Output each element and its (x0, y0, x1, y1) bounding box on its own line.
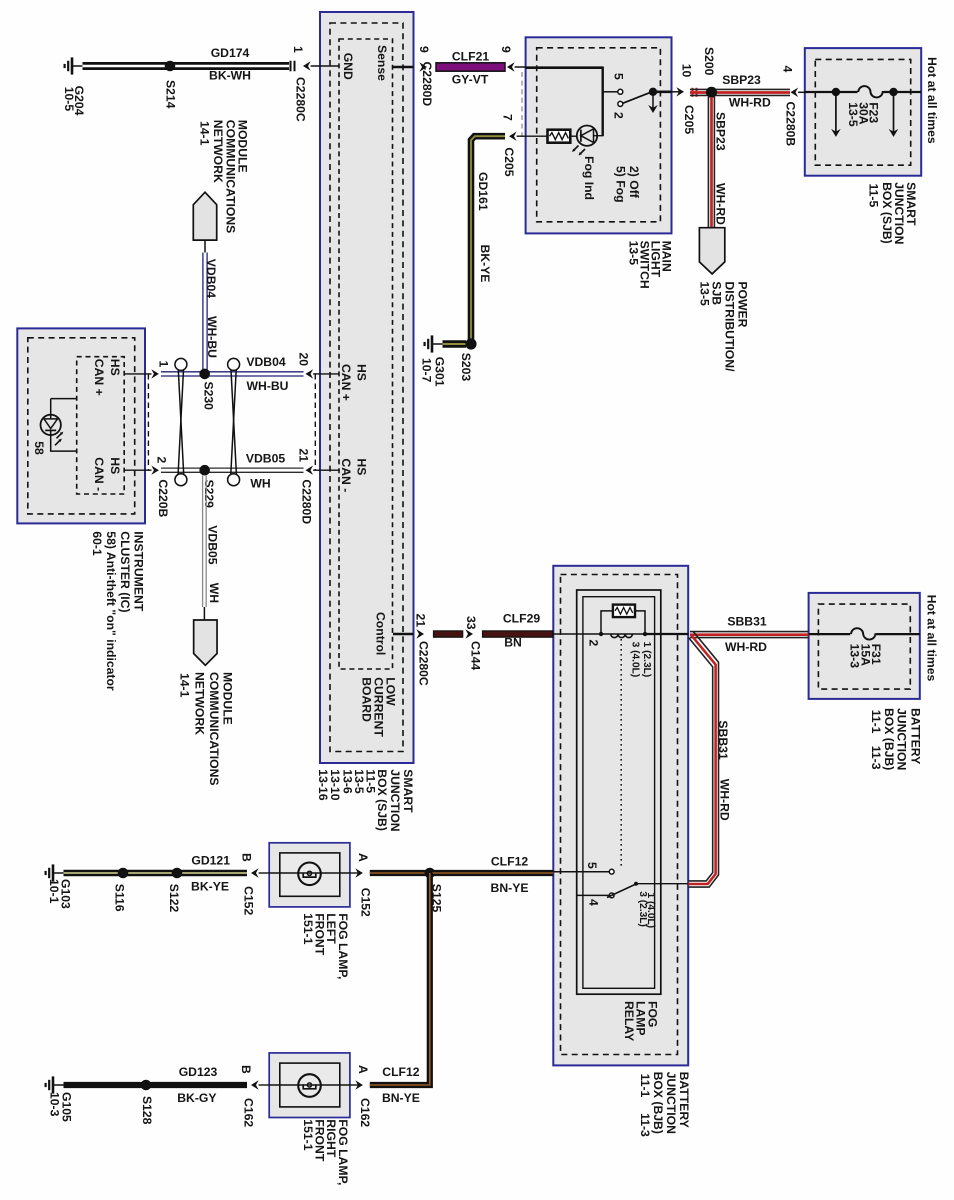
wire stub into fog lamp right (259, 1084, 270, 1086)
wire through fog lamp right (269, 1084, 350, 1086)
relay pin 5 terminal (609, 869, 614, 874)
svg-text:13-5: 13-5 (697, 281, 711, 306)
wire CLF12 BN-YE to S125 (370, 870, 427, 876)
relay coil parallel resistor (601, 611, 645, 634)
svg-text:2: 2 (155, 457, 169, 464)
connector arrow C2280C pin 21 (416, 629, 424, 638)
svg-text:CLF12: CLF12 (491, 854, 528, 868)
connector arrow C152 pin B (251, 868, 259, 877)
svg-text:S230: S230 (202, 382, 216, 411)
svg-text:S229: S229 (202, 480, 216, 509)
svg-text:58) Anti-theft "on" indicator: 58) Anti-theft "on" indicator (104, 531, 118, 691)
connector arrow C2280B pin 4 (791, 88, 799, 97)
fog ind LED arrows (574, 146, 586, 155)
svg-text:RELAY: RELAY (622, 1001, 636, 1041)
svg-text:SBB31: SBB31 (716, 720, 730, 760)
connector arrow C152 pin A (355, 868, 363, 877)
svg-text:BOX (BJB): BOX (BJB) (651, 1072, 665, 1134)
wire from relay coil to box edge (645, 633, 688, 635)
splice S128 (141, 1080, 152, 1091)
svg-text:C152: C152 (241, 886, 255, 915)
wire GD161 BK-YE vertical run (471, 136, 505, 344)
svg-text:VDB05: VDB05 (246, 451, 286, 465)
svg-text:S128: S128 (140, 1096, 154, 1125)
svg-text:GD121: GD121 (191, 853, 230, 867)
svg-text:VDB04: VDB04 (246, 355, 286, 369)
connector arrow C205 pin 7 (509, 132, 517, 141)
svg-text:1: 1 (291, 46, 305, 53)
wire GD121 BK-YE (64, 870, 248, 877)
connector arrow C162 pin A (355, 1080, 363, 1089)
svg-text:CLF21: CLF21 (452, 50, 489, 64)
svg-text:GND: GND (341, 53, 355, 80)
svg-text:1 (2.3L): 1 (2.3L) (641, 642, 652, 678)
relay pin 4 terminal (609, 893, 614, 898)
ground G105 (46, 1076, 64, 1093)
svg-text:B: B (239, 1065, 253, 1074)
svg-text:13-5: 13-5 (846, 102, 860, 127)
svg-text:WH-BU: WH-BU (247, 379, 289, 393)
wire stub out of fog lamp left (350, 872, 360, 874)
svg-text:11-5: 11-5 (867, 184, 881, 208)
svg-text:BK-GY: BK-GY (177, 1091, 216, 1105)
svg-text:2: 2 (611, 112, 625, 119)
svg-text:CLF29: CLF29 (503, 611, 540, 625)
stub below pentagon (204, 240, 206, 252)
wire CLF29 BN segment 2 (483, 631, 553, 637)
splice S200 (706, 87, 717, 98)
svg-text:A: A (356, 853, 370, 862)
svg-text:BN-YE: BN-YE (382, 1091, 420, 1105)
splice S203 (465, 338, 476, 349)
svg-text:WH-BU: WH-BU (205, 316, 219, 358)
svg-text:S203: S203 (459, 353, 473, 382)
svg-text:HS: HS (355, 458, 369, 475)
svg-text:VDB05: VDB05 (206, 525, 220, 565)
wire from switch common to box edge (636, 883, 688, 885)
svg-text:C144: C144 (468, 641, 482, 670)
svg-text:Sense: Sense (375, 45, 389, 81)
svg-text:JUNCTION: JUNCTION (895, 708, 909, 770)
svg-text:21: 21 (413, 614, 427, 628)
svg-text:JUNCTION: JUNCTION (388, 769, 402, 831)
splice S125 (425, 868, 436, 879)
ground G301 (425, 335, 443, 352)
IC pin 1 stub (124, 373, 151, 375)
switch terminal 2 (618, 101, 623, 106)
wire stub out of fog lamp right (350, 1084, 360, 1086)
svg-text:MODULE: MODULE (220, 672, 234, 725)
svg-text:4: 4 (781, 66, 795, 73)
svg-text:BK-YE: BK-YE (478, 245, 492, 283)
main light switch dashed boundary (537, 48, 661, 222)
svg-text:13-5: 13-5 (627, 241, 641, 266)
svg-text:C2280C: C2280C (417, 641, 431, 686)
svg-text:13-3: 13-3 (847, 644, 861, 669)
svg-text:GD161: GD161 (476, 172, 490, 211)
svg-text:14-1: 14-1 (197, 121, 211, 146)
svg-text:C205: C205 (502, 147, 516, 176)
svg-text:GD123: GD123 (179, 1065, 218, 1079)
svg-text:NETWORK: NETWORK (192, 672, 206, 735)
svg-text:Control: Control (373, 612, 387, 655)
svg-text:Fog Ind: Fog Ind (582, 156, 596, 200)
svg-text:WH: WH (250, 477, 270, 491)
splice S230 (199, 369, 210, 380)
svg-text:WH-RD: WH-RD (714, 183, 728, 225)
switch common junction (649, 88, 657, 96)
instrument cluster IC box (17, 328, 145, 523)
twisted pair symbol left (175, 358, 187, 485)
wire VDB05 WH horizontal (double black) (161, 468, 304, 472)
junction dot right of fuse F23 (889, 88, 897, 96)
svg-text:C220B: C220B (156, 479, 170, 517)
wire CLF21 GY-VT (436, 63, 505, 71)
svg-text:HS: HS (355, 364, 369, 381)
relay switch blade (607, 884, 636, 898)
fog lamp left front box (269, 843, 350, 907)
junction dot left of fuse F23 (832, 88, 840, 96)
switch feed continues arrow (652, 92, 654, 109)
svg-text:10: 10 (680, 64, 694, 78)
svg-text:CLUSTER (IC): CLUSTER (IC) (118, 531, 132, 612)
svg-text:C152: C152 (359, 888, 373, 917)
wire GD174 BK-WH (83, 62, 290, 70)
svg-text:BN: BN (504, 636, 522, 650)
svg-text:NETWORK: NETWORK (211, 120, 225, 183)
wire through fog lamp left (269, 872, 350, 874)
connector arrow C205 pin 9 (507, 62, 515, 71)
wire through SJB fuse box (805, 91, 921, 93)
splice S122 (172, 868, 183, 879)
connector arrow C2280D pin 21 (306, 466, 314, 475)
svg-text:C162: C162 (358, 1098, 372, 1127)
LED 58 arrows (55, 433, 62, 445)
wire into relay pin 5 (553, 871, 609, 873)
svg-text:S214: S214 (164, 80, 178, 109)
SJB fuse box dashed boundary (815, 59, 910, 165)
svg-text:5: 5 (585, 862, 599, 869)
svg-text:5) Fog: 5) Fog (614, 166, 628, 203)
splice S116 (118, 868, 129, 879)
smart junction box SJB (tall, low current board) (320, 12, 414, 763)
svg-text:3 (4.0L): 3 (4.0L) (630, 642, 641, 678)
wire CLF29 BN segment 1 (434, 631, 463, 637)
relay pin 1/3 terminal (643, 632, 647, 636)
fog lamp right bulb (298, 1074, 321, 1097)
svg-text:BK-WH: BK-WH (209, 69, 251, 83)
off-page arrow module communications network (bottom) (194, 620, 217, 665)
svg-text:14-1: 14-1 (178, 673, 192, 698)
wire VDB04 WH-BU horizontal (double navy) (161, 372, 304, 376)
fuse F23 30A (858, 84, 884, 100)
svg-text:COMMUNICATIONS: COMMUNICATIONS (207, 672, 221, 786)
fog ind LED (577, 126, 597, 146)
fog lamp left bulb (298, 863, 321, 886)
svg-text:POWER: POWER (735, 281, 749, 327)
svg-text:WH-RD: WH-RD (725, 640, 767, 654)
connector arrow C2280D pin 9 (419, 62, 427, 71)
switch internal vertical wire (602, 67, 604, 137)
svg-text:BOX (SJB): BOX (SJB) (880, 182, 894, 244)
svg-text:Hot at all times: Hot at all times (924, 595, 938, 682)
wire stub into fog lamp left (259, 872, 270, 874)
switch blade to position 2 (623, 92, 651, 103)
wire resistor to LED (570, 135, 577, 137)
svg-text:CAN +: CAN + (339, 364, 353, 401)
svg-text:1: 1 (157, 361, 171, 368)
svg-text:2) Off: 2) Off (627, 166, 641, 199)
svg-text:20: 20 (296, 353, 310, 367)
svg-text:C2280B: C2280B (784, 102, 798, 147)
SJB HS CAN- pin stub (320, 469, 339, 471)
svg-text:SBP23: SBP23 (722, 73, 761, 87)
svg-text:SBP23: SBP23 (714, 112, 728, 151)
red connector end bars (693, 88, 697, 97)
wire stub pin 20 (313, 373, 320, 375)
relay switch common terminal (634, 882, 638, 886)
svg-text:CLF12: CLF12 (382, 1065, 419, 1079)
svg-text:11-1: 11-1 (869, 710, 883, 734)
BJB fuse box dashed boundary (818, 604, 910, 689)
svg-text:11-1: 11-1 (638, 1074, 652, 1098)
svg-text:C2280C: C2280C (294, 77, 308, 122)
svg-text:C2280D: C2280D (420, 62, 434, 107)
connector arrow C2280D pin 20 (306, 369, 314, 378)
relay actuation dotted line (620, 639, 622, 868)
svg-text:58: 58 (32, 441, 46, 455)
smart junction box SJB fuse box (top right) (805, 48, 921, 176)
IC outer dashed boundary (28, 338, 135, 514)
connector arrow C220B pin 2 (151, 466, 159, 475)
ground G204 (65, 57, 83, 74)
IC anti-theft LED 58 (41, 399, 77, 452)
svg-text:BK-YE: BK-YE (191, 880, 229, 894)
svg-text:10-1: 10-1 (47, 879, 61, 904)
svg-text:S122: S122 (167, 884, 181, 913)
connector C205 gray dashed boundary (521, 72, 523, 137)
svg-text:WH: WH (207, 583, 221, 603)
svg-text:C205: C205 (682, 105, 696, 134)
connector arrow C2280C pin 1 (303, 61, 311, 70)
svg-text:13-16: 13-16 (316, 769, 330, 800)
svg-text:7: 7 (500, 114, 514, 121)
svg-text:B: B (240, 853, 254, 862)
svg-text:INSTRUMENT: INSTRUMENT (131, 531, 145, 611)
svg-text:11-3: 11-3 (869, 746, 883, 770)
BJB relay dashed boundary (561, 575, 678, 1055)
svg-text:CAN -: CAN - (339, 458, 353, 492)
wire pin 10 inside switch (655, 91, 672, 94)
wire stub pin 21 (313, 469, 320, 471)
battery junction box BJB fuse box (F31) (809, 593, 920, 699)
svg-text:5: 5 (611, 73, 625, 80)
svg-text:33: 33 (464, 616, 478, 630)
twisted pair symbol right (228, 358, 240, 485)
svg-text:11-3: 11-3 (638, 1113, 652, 1137)
SJB low current board dashed box (339, 39, 393, 669)
splice S229 (199, 465, 210, 476)
switch internal wire from pin 9 (526, 66, 603, 69)
connector arrow C144 pin 33 (465, 629, 473, 638)
svg-text:WH-RD: WH-RD (729, 96, 771, 110)
wire SBB31 WH-RD horizontal (690, 632, 809, 638)
svg-text:C2280D: C2280D (299, 479, 313, 524)
fog lamp relay double rectangle (577, 590, 661, 994)
Control pin wire out of SJB (393, 633, 414, 636)
dashed connector line C2280D (314, 374, 316, 470)
svg-text:VDB04: VDB04 (204, 259, 218, 299)
svg-text:10-5: 10-5 (62, 87, 76, 112)
svg-text:4: 4 (586, 899, 600, 906)
svg-text:BOX (BJB): BOX (BJB) (882, 708, 896, 770)
bus arrow down right (893, 92, 895, 133)
wire stub into SJB GND pin (311, 65, 339, 67)
wire through BJB fuse box (809, 633, 920, 635)
svg-text:10-7: 10-7 (420, 358, 434, 383)
off-page arrow to power distribution (699, 228, 724, 274)
svg-text:10-3: 10-3 (47, 1092, 61, 1117)
wire SBB31 WH-RD bend down to relay switch (688, 632, 718, 888)
svg-text:S116: S116 (112, 884, 126, 912)
wire pin7 to resistor (517, 135, 548, 137)
svg-text:GD174: GD174 (211, 46, 250, 60)
connector arrow C162 pin B (251, 1080, 259, 1089)
ground G103 (46, 864, 64, 881)
svg-text:BN-YE: BN-YE (491, 881, 529, 895)
svg-text:9: 9 (499, 46, 513, 53)
svg-text:151-1: 151-1 (301, 913, 315, 944)
svg-text:DISTRIBUTION/: DISTRIBUTION/ (722, 281, 736, 372)
svg-text:S200: S200 (702, 47, 716, 76)
svg-text:GY-VT: GY-VT (452, 73, 489, 87)
stub above pentagon (bottom) (203, 607, 205, 620)
SJB HS CAN+ pin stub (320, 373, 339, 375)
svg-text:A: A (356, 1065, 370, 1074)
IC inner dashed box (77, 357, 125, 494)
svg-text:HS: HS (108, 359, 122, 376)
fog lamp right front box (269, 1053, 350, 1118)
wire CLF12 BN-YE to relay pin 5 (433, 870, 554, 876)
svg-text:SMART: SMART (401, 769, 415, 813)
wire VDB04 WH-BU vertical (double navy) (203, 253, 207, 372)
wire at relay pin 4 (577, 894, 610, 896)
fog ind resistor (548, 130, 571, 143)
svg-text:BATTERY: BATTERY (908, 708, 922, 764)
svg-text:2: 2 (586, 640, 600, 647)
main light switch box (526, 37, 672, 233)
svg-text:HS: HS (108, 457, 122, 474)
wire GD161 BK-YE stub (443, 340, 467, 347)
svg-text:CAN -: CAN - (92, 457, 106, 491)
stub to terminal 5 (603, 91, 618, 93)
svg-text:151-1: 151-1 (301, 1119, 315, 1150)
connector arrow C205 pin 10 (676, 87, 684, 96)
wire CLF12 BN-YE vertical run (370, 873, 430, 1085)
wire SBP23 WH-RD vertical (708, 97, 714, 228)
svg-text:JUNCTION: JUNCTION (664, 1072, 678, 1134)
dashed connector line C220B (147, 374, 149, 470)
IC pin 2 stub (124, 469, 151, 471)
svg-text:21: 21 (296, 449, 310, 463)
svg-text:9: 9 (417, 46, 431, 53)
wire stub into SJB fuse box (798, 91, 805, 93)
svg-text:C162: C162 (241, 1098, 255, 1127)
svg-text:BATTERY: BATTERY (677, 1072, 691, 1128)
wire stub into switch box (515, 66, 526, 68)
svg-text:WH-RD: WH-RD (717, 779, 731, 821)
Sense pin wire out of SJB (393, 66, 414, 69)
svg-text:Hot at all times: Hot at all times (925, 57, 939, 144)
connector end bars C2280C (291, 61, 295, 72)
wire into relay pin 2 (553, 633, 602, 635)
fuse F31 15A (850, 626, 876, 642)
connector arrow C220B pin 1 (151, 369, 159, 378)
svg-text:SBB31: SBB31 (727, 614, 767, 628)
switch terminal 5 (618, 89, 623, 94)
splice S214 (165, 61, 176, 72)
wire SBP23 WH-RD horizontal (690, 89, 790, 95)
bus arrow down left (835, 92, 837, 133)
svg-text:CAN +: CAN + (92, 359, 106, 396)
svg-text:BOARD: BOARD (360, 677, 374, 722)
svg-text:1 (4.0L): 1 (4.0L) (645, 893, 656, 929)
wire GD123 BK-GY (64, 1082, 248, 1088)
wire VDB05 WH vertical (double gray) (203, 476, 207, 608)
relay coil (611, 634, 633, 638)
relay pin 2 terminal (599, 632, 603, 636)
off-page arrow module communications network (top) (193, 192, 216, 240)
svg-text:60-1: 60-1 (90, 531, 104, 556)
battery junction box BJB relay box (553, 566, 688, 1066)
SJB outer dashed boundary (330, 23, 403, 752)
relay coil row wire (601, 633, 645, 635)
